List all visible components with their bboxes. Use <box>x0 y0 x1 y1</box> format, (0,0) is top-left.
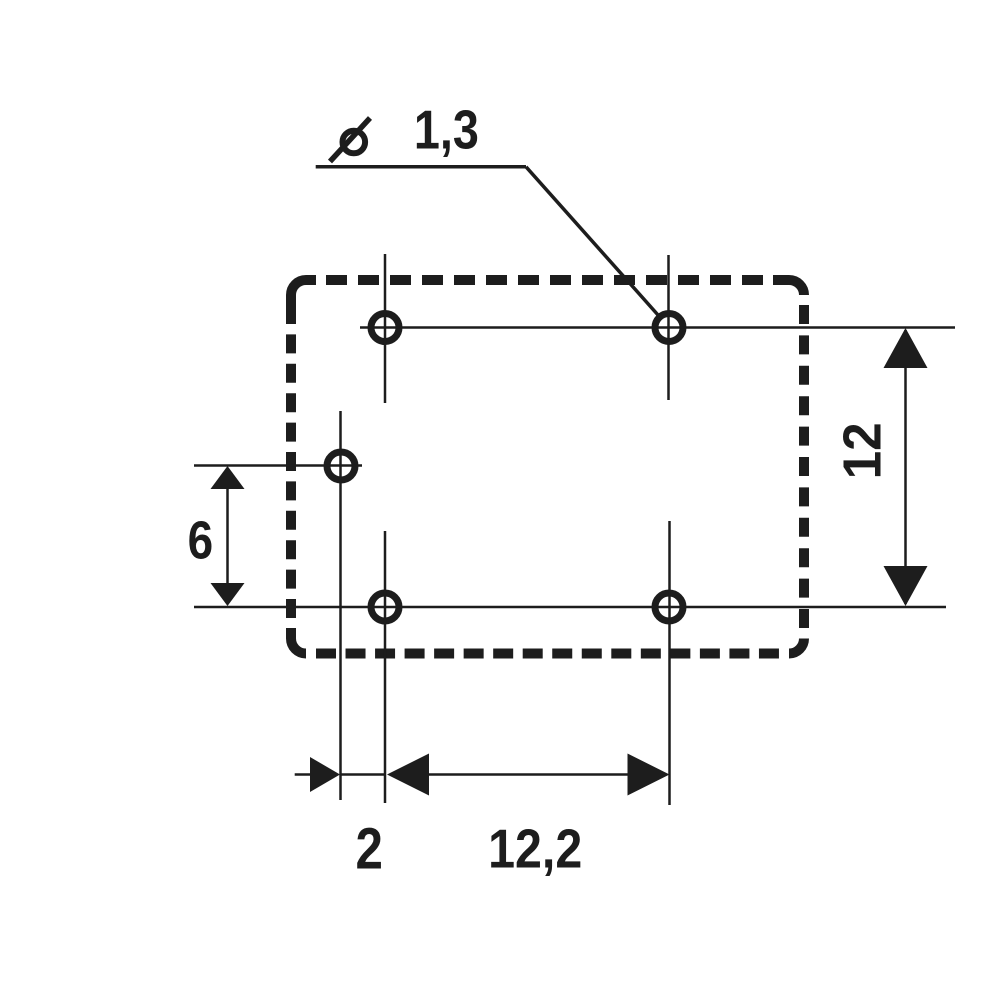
dimension line 12 (vertical, right) <box>904 330 907 604</box>
centerline horizontal through top pins <box>360 326 955 329</box>
arrowhead 12 bottom <box>884 566 928 606</box>
svg-text:6: 6 <box>188 510 214 570</box>
arrowhead 12,2 right (points right) <box>628 754 670 796</box>
hole pin top-right <box>655 314 683 342</box>
leader line diagonal to top-right pin <box>526 167 658 315</box>
centerline vertical bottom-right pin / extension <box>668 521 671 805</box>
centerline vertical top-left pin <box>384 254 387 403</box>
svg-text:12: 12 <box>832 422 892 479</box>
svg-text:2: 2 <box>355 817 382 882</box>
hole pin top-left <box>371 314 399 342</box>
svg-text:1,3: 1,3 <box>414 99 479 160</box>
outline corner top-left <box>291 280 316 305</box>
arrowhead 12 top <box>884 328 928 368</box>
dimension line 12,2 <box>428 773 628 776</box>
dimension 2 tail line <box>295 773 311 776</box>
centerline horizontal through bottom pins <box>194 606 946 609</box>
dimension line between 2-extensions <box>341 773 387 776</box>
centerline horizontal through middle-left pin <box>194 464 362 467</box>
arrowhead 2 (points right) <box>310 757 340 792</box>
outline corner bottom-right <box>789 639 804 654</box>
hole pin bottom-left <box>371 593 399 621</box>
svg-text:12,2: 12,2 <box>488 818 582 880</box>
centerline vertical bottom-left pin / extension <box>384 531 387 803</box>
outline corner bottom-left <box>291 628 306 654</box>
diameter symbol slash <box>330 118 370 162</box>
relay body outline (dashed) left edge <box>286 305 296 618</box>
leader line horizontal (diameter callout) <box>316 165 526 169</box>
arrowhead 12,2 left (points left) <box>387 754 429 796</box>
outline corner top-right <box>773 280 804 295</box>
arrowhead 6 bottom <box>211 583 245 606</box>
centerline vertical top-right pin <box>667 255 670 400</box>
arrowhead 6 top <box>211 466 245 489</box>
centerline vertical middle-left pin / extension <box>339 411 342 800</box>
relay body outline (dashed) top edge <box>326 275 763 285</box>
relay body outline (dashed) bottom edge <box>316 649 779 659</box>
hole pin bottom-right <box>655 593 683 621</box>
relay body outline (dashed) right edge <box>799 305 809 628</box>
diameter symbol circle <box>343 131 366 154</box>
dimension line 6 (vertical, left) <box>226 468 229 604</box>
hole pin middle-left <box>327 452 355 480</box>
